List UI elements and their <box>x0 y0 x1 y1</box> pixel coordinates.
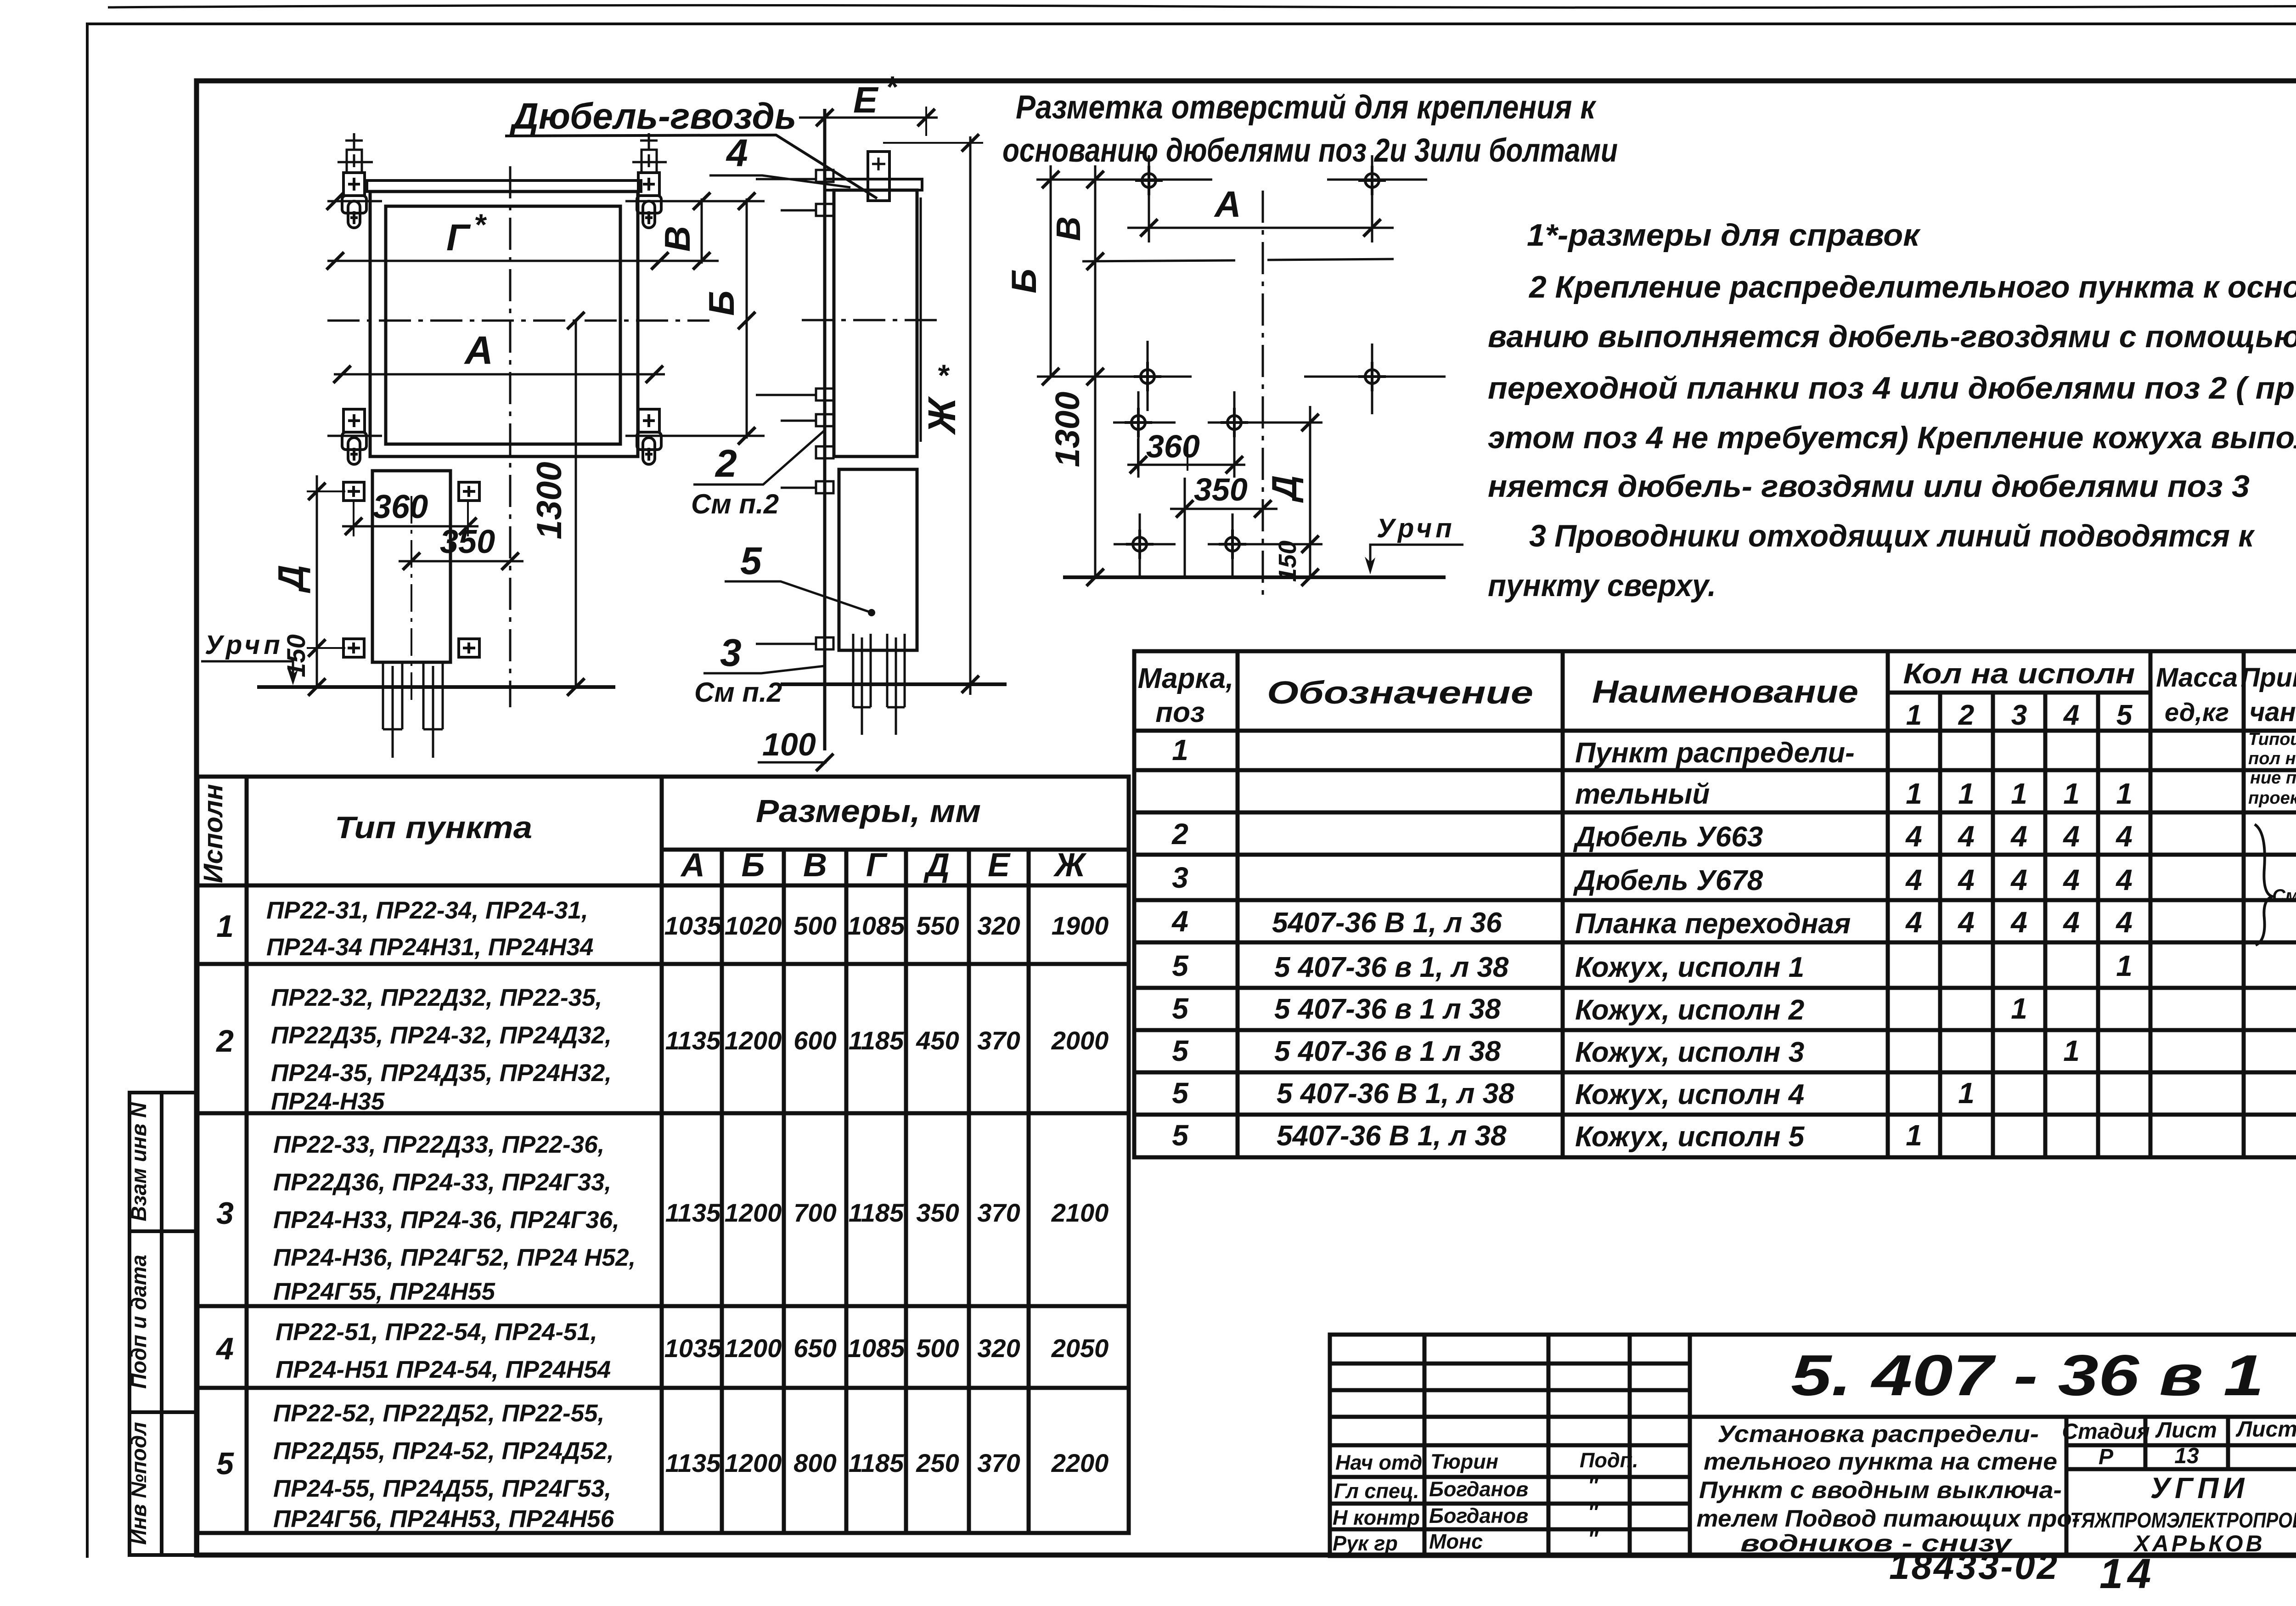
svg-text:Планка переходная: Планка переходная <box>1575 908 1851 940</box>
svg-text:ПР24Г56, ПР24Н53, ПР24Н56: ПР24Г56, ПР24Н53, ПР24Н56 <box>273 1505 614 1533</box>
svg-text:2: 2 <box>1171 817 1188 851</box>
callout Дюбель-гвоздь <box>505 96 877 198</box>
dim 100 <box>758 727 833 771</box>
svg-text:360: 360 <box>373 489 428 525</box>
dim В vertical <box>657 198 702 264</box>
dim 360 (holes) <box>1127 428 1245 473</box>
parts table designations <box>1272 907 1514 1152</box>
svg-text:Кол на исполн: Кол на исполн <box>1903 658 2135 690</box>
svg-text:В: В <box>803 847 827 884</box>
svg-text:Дюбель-гвоздь: Дюбель-гвоздь <box>509 96 796 136</box>
svg-text:Е: Е <box>988 847 1011 884</box>
dim line В / 1300 (left) <box>1048 165 1104 586</box>
title text <box>1697 1421 2080 1557</box>
lug bottom-left <box>342 409 366 464</box>
svg-text:телем Подвод питающих про-: телем Подвод питающих про- <box>1697 1505 2080 1532</box>
svg-text:Лист: Лист <box>2155 1418 2217 1443</box>
svg-text:1: 1 <box>1958 777 1975 810</box>
svg-text:4: 4 <box>1905 820 1922 853</box>
svg-text:Нач отд.: Нач отд. <box>1335 1451 1428 1474</box>
svg-text:Н контр: Н контр <box>1333 1506 1420 1529</box>
svg-text:1200: 1200 <box>725 1198 782 1227</box>
stand box <box>372 471 450 662</box>
title block frame <box>1330 1335 2296 1556</box>
svg-text:Взам инв N: Взам инв N <box>127 1102 151 1222</box>
top plate side <box>825 179 922 190</box>
svg-text:1020: 1020 <box>725 911 782 940</box>
svg-text:320: 320 <box>977 911 1020 940</box>
svg-text:А: А <box>464 328 493 372</box>
svg-text:Кожух, исполн 5: Кожух, исполн 5 <box>1575 1121 1805 1153</box>
svg-text:150: 150 <box>281 634 310 677</box>
svg-text:Марка,: Марка, <box>1138 663 1234 694</box>
svg-text:ПР22-33, ПР22Д33, ПР22-36,: ПР22-33, ПР22Д33, ПР22-36, <box>273 1131 604 1158</box>
svg-text:ПР24-35, ПР24Д35, ПР24Н32,: ПР24-35, ПР24Д35, ПР24Н32, <box>271 1059 612 1087</box>
front ground line <box>257 678 615 696</box>
svg-text:800: 800 <box>793 1448 836 1477</box>
svg-text:ПР24-Н36, ПР24Г52, ПР24 Н52,: ПР24-Н36, ПР24Г52, ПР24 Н52, <box>273 1244 636 1271</box>
svg-text:320: 320 <box>977 1334 1020 1363</box>
svg-text:1200: 1200 <box>725 1448 782 1477</box>
front anchor bolts <box>383 662 443 758</box>
dim Е line <box>799 107 938 136</box>
top holes <box>1135 155 1163 242</box>
svg-text:ПР24-Н51 ПР24-54, ПР24Н54: ПР24-Н51 ПР24-54, ПР24Н54 <box>276 1356 611 1383</box>
stadia list listov <box>2062 1417 2296 1469</box>
svg-text:2100: 2100 <box>1051 1198 1109 1227</box>
svg-text:″: ″ <box>1588 1474 1599 1497</box>
svg-text:Стадия: Стадия <box>2062 1420 2150 1444</box>
svg-text:Монс: Монс <box>1429 1530 1483 1553</box>
svg-text:1*-размеры для справок: 1*-размеры для справок <box>1527 218 1921 253</box>
svg-text:Д: Д <box>923 847 950 884</box>
svg-text:1900: 1900 <box>1052 911 1109 940</box>
parts table remark column <box>2248 730 2296 808</box>
parts table quantities <box>1905 777 2133 1152</box>
svg-text:Урчп: Урчп <box>1377 513 1456 543</box>
lug bottom-right <box>637 409 661 464</box>
svg-text:Установка распредели-: Установка распредели- <box>1717 1421 2039 1448</box>
svg-text:В: В <box>1049 216 1087 241</box>
svg-text:1: 1 <box>2011 777 2027 810</box>
svg-text:2000: 2000 <box>1051 1026 1109 1055</box>
svg-text:ПР24-Н33, ПР24-36, ПР24Г36,: ПР24-Н33, ПР24-36, ПР24Г36, <box>273 1206 619 1234</box>
svg-text:1185: 1185 <box>849 1448 904 1477</box>
svg-text:5: 5 <box>2116 699 2133 731</box>
svg-text:А: А <box>1214 184 1241 225</box>
svg-text:4: 4 <box>1957 906 1975 939</box>
svg-text:переходной планки поз 4 или: переходной планки поз 4 или дюбелями поз… <box>1488 371 2296 406</box>
left stamp column <box>129 1093 197 1555</box>
svg-text:См п.2: См п.2 <box>691 489 779 519</box>
svg-text:Обозначение: Обозначение <box>1267 675 1533 710</box>
svg-text:3 Проводники отходящих линий: 3 Проводники отходящих линий подводятся … <box>1529 518 2255 553</box>
svg-text:4: 4 <box>2115 820 2133 853</box>
svg-text:Тюрин: Тюрин <box>1430 1450 1498 1473</box>
svg-text:ПР24-Н35: ПР24-Н35 <box>271 1088 385 1115</box>
svg-text:1: 1 <box>1906 699 1922 731</box>
svg-text:4: 4 <box>2010 863 2027 896</box>
callout 2 <box>691 429 826 519</box>
parts table pos numbers <box>1171 733 1189 1152</box>
svg-text:1: 1 <box>1172 733 1188 766</box>
svg-text:чание: чание <box>2250 697 2296 727</box>
svg-text:1: 1 <box>2011 992 2027 1025</box>
svg-text:*: * <box>937 358 950 392</box>
svg-text:360: 360 <box>1146 428 1200 464</box>
svg-text:Р: Р <box>2099 1445 2114 1469</box>
stand axis line (holes) <box>1184 478 1186 577</box>
svg-text:Е: Е <box>853 79 879 120</box>
svg-text:ПР22Д36, ПР24-33, ПР24Г33,: ПР22Д36, ПР24-33, ПР24Г33, <box>273 1169 611 1196</box>
side anchor bolts <box>853 634 905 735</box>
label Урчп (holes) <box>1365 513 1463 575</box>
svg-text:Богданов: Богданов <box>1429 1504 1528 1527</box>
signature rows <box>1333 1448 1638 1555</box>
svg-text:Д: Д <box>1265 475 1304 503</box>
page top edge line <box>108 5 2296 7</box>
dim А line <box>1127 184 1394 237</box>
side ground line <box>781 682 1007 686</box>
lug center row line top <box>327 200 765 203</box>
svg-text:4: 4 <box>215 1331 234 1366</box>
svg-text:1: 1 <box>2116 777 2133 810</box>
svg-text:ние по: ние по <box>2250 768 2296 788</box>
svg-text:Г: Г <box>866 847 888 884</box>
front view top plate (планка) <box>367 180 641 192</box>
svg-text:Б: Б <box>742 847 765 884</box>
dimensions table frame <box>197 777 1129 1533</box>
Б top line <box>1082 260 1235 261</box>
svg-text:2: 2 <box>1958 699 1974 731</box>
svg-text:5 407-36 в 1 л 38: 5 407-36 в 1 л 38 <box>1274 1036 1501 1067</box>
dim Ж vertical <box>883 134 983 695</box>
parts table header texts <box>1138 658 2296 731</box>
svg-text:4: 4 <box>2010 820 2027 853</box>
horizontal centerline <box>327 312 709 329</box>
middle hole row <box>1037 376 1192 378</box>
dim line Б (left) <box>1005 165 1059 385</box>
svg-text:4: 4 <box>1957 820 1975 853</box>
svg-text:370: 370 <box>977 1448 1020 1477</box>
dims table type texts <box>266 897 636 1533</box>
svg-text:4: 4 <box>2062 906 2080 939</box>
svg-text:ПР22-52, ПР22Д52, ПР22-55,: ПР22-52, ПР22Д52, ПР22-55, <box>273 1400 604 1427</box>
svg-text:2 Крепление распределительног: 2 Крепление распределительного пункта к … <box>1528 270 2296 304</box>
svg-text:ПР22-51, ПР22-54, ПР24-51,: ПР22-51, ПР22-54, ПР24-51, <box>276 1319 597 1346</box>
svg-text:3: 3 <box>720 631 742 674</box>
svg-text:Богданов: Богданов <box>1429 1477 1528 1501</box>
svg-text:ед,кг: ед,кг <box>2165 698 2229 727</box>
dim Г* line <box>326 208 719 270</box>
svg-text:4: 4 <box>2062 863 2080 896</box>
svg-text:100: 100 <box>762 727 816 762</box>
svg-text:основанию дюбелями поз 2и 3или: основанию дюбелями поз 2и 3или болтами <box>1002 132 1618 169</box>
svg-text:тельного пункта на стене: тельного пункта на стене <box>1704 1448 2057 1475</box>
lower box side (кожух) <box>839 469 917 650</box>
svg-text:Исполн: Исполн <box>198 784 228 883</box>
svg-text:ТЯЖПРОМЭЛЕКТРОПРОЕКТ: ТЯЖПРОМЭЛЕКТРОПРОЕКТ <box>2070 1508 2296 1532</box>
svg-text:3: 3 <box>2011 699 2027 731</box>
svg-text:550: 550 <box>916 911 959 940</box>
svg-text:Масса: Масса <box>2156 663 2238 693</box>
svg-text:1200: 1200 <box>725 1026 782 1055</box>
svg-text:1185: 1185 <box>849 1198 904 1227</box>
svg-text:2200: 2200 <box>1051 1448 1109 1477</box>
dowel top <box>868 152 889 201</box>
inner top holes <box>1113 391 1176 478</box>
svg-text:Разметка отверстий для креплен: Разметка отверстий для крепления к <box>1016 89 1597 126</box>
svg-text:″: ″ <box>1588 1527 1599 1550</box>
svg-text:Б: Б <box>1005 269 1044 293</box>
svg-text:1135: 1135 <box>665 1448 721 1477</box>
dim Д vertical (holes) <box>1265 406 1319 582</box>
svg-text:ПР24-55, ПР24Д55, ПР24Г53,: ПР24-55, ПР24Д55, ПР24Г53, <box>273 1475 611 1502</box>
svg-text:1135: 1135 <box>665 1026 721 1055</box>
svg-text:5: 5 <box>1172 949 1189 982</box>
svg-text:Кожух, исполн 2: Кожух, исполн 2 <box>1575 994 1804 1026</box>
svg-text:Листов: Листов <box>2235 1417 2296 1442</box>
svg-text:1035: 1035 <box>664 911 722 940</box>
svg-text:5: 5 <box>1172 992 1189 1025</box>
svg-text:3: 3 <box>216 1196 234 1231</box>
svg-text:5: 5 <box>216 1446 234 1481</box>
svg-text:ПР22Д35, ПР24-32, ПР24Д32,: ПР22Д35, ПР24-32, ПР24Д32, <box>271 1022 612 1049</box>
top hole row line <box>1036 179 1212 181</box>
dims table values <box>664 911 1109 1477</box>
svg-text:УГПИ: УГПИ <box>2150 1471 2249 1505</box>
svg-text:18433-02: 18433-02 <box>1889 1546 2059 1587</box>
stand tabs <box>343 482 364 501</box>
svg-text:″: ″ <box>1588 1500 1599 1524</box>
svg-text:Инв №подл: Инв №подл <box>127 1422 151 1544</box>
svg-text:5407-36 В 1, л 38: 5407-36 В 1, л 38 <box>1277 1120 1507 1152</box>
svg-text:350: 350 <box>440 524 495 560</box>
svg-text:5: 5 <box>740 539 762 582</box>
svg-text:650: 650 <box>793 1334 836 1363</box>
dims table row numbers <box>215 909 234 1481</box>
svg-text:пункту сверху.: пункту сверху. <box>1488 568 1716 603</box>
svg-text:1: 1 <box>1906 777 1922 810</box>
svg-text:ПР24Г55, ПР24Н55: ПР24Г55, ПР24Н55 <box>273 1278 496 1305</box>
svg-text:поз: поз <box>1155 697 1204 728</box>
svg-text:А: А <box>680 847 705 884</box>
svg-text:1200: 1200 <box>725 1334 782 1363</box>
svg-text:450: 450 <box>916 1026 959 1055</box>
svg-text:*: * <box>885 70 899 104</box>
svg-text:4: 4 <box>1957 863 1975 896</box>
callout 5 <box>725 539 875 616</box>
svg-text:Ж: Ж <box>920 396 963 435</box>
dim 1300 vertical <box>530 321 576 687</box>
svg-text:5: 5 <box>1172 1034 1189 1067</box>
upper box side <box>834 190 917 456</box>
svg-text:В: В <box>657 226 698 252</box>
svg-text:4: 4 <box>1905 906 1922 939</box>
svg-text:Урчп: Урчп <box>205 630 284 660</box>
svg-text:1: 1 <box>2063 1034 2080 1067</box>
svg-text:1035: 1035 <box>664 1334 722 1363</box>
svg-text:4: 4 <box>1171 905 1188 938</box>
svg-text:500: 500 <box>916 1334 959 1363</box>
svg-text:1300: 1300 <box>1048 392 1086 468</box>
wall line <box>823 109 827 750</box>
lug top-left <box>342 133 366 228</box>
svg-text:5 407-36 В 1, л 38: 5 407-36 В 1, л 38 <box>1277 1078 1514 1110</box>
label Е* <box>853 70 899 120</box>
svg-text:2: 2 <box>715 442 737 485</box>
svg-text:5: 5 <box>1172 1119 1189 1152</box>
svg-text:350: 350 <box>1194 472 1248 507</box>
svg-text:2: 2 <box>215 1024 234 1059</box>
svg-text:Подп и дата: Подп и дата <box>127 1255 151 1389</box>
svg-text:Гл спец.: Гл спец. <box>1334 1479 1419 1503</box>
svg-text:ПР22Д55, ПР24-52, ПР24Д52,: ПР22Д55, ПР24-52, ПР24Д52, <box>273 1437 614 1465</box>
svg-text:1: 1 <box>1958 1076 1975 1110</box>
vertical centerline <box>509 166 512 707</box>
svg-text:1085: 1085 <box>848 1334 905 1363</box>
org name <box>2070 1471 2296 1556</box>
svg-text:*: * <box>474 208 487 242</box>
svg-text:Г: Г <box>446 217 471 259</box>
svg-text:1: 1 <box>2063 777 2080 810</box>
svg-text:5 407-36 в 1 л 38: 5 407-36 в 1 л 38 <box>1274 993 1501 1025</box>
svg-text:4: 4 <box>2115 906 2133 939</box>
dim А line <box>333 328 665 383</box>
svg-text:5407-36 В 1, л 36: 5407-36 В 1, л 36 <box>1272 907 1502 939</box>
svg-text:5. 407 - 36 в 1: 5. 407 - 36 в 1 <box>1791 1343 2264 1408</box>
svg-text:600: 600 <box>793 1026 836 1055</box>
dim 350 (holes) <box>1170 472 1277 518</box>
label Урчп (front) <box>201 630 298 685</box>
svg-text:Рук гр: Рук гр <box>1333 1532 1398 1555</box>
svg-text:Размеры, мм: Размеры, мм <box>756 793 981 829</box>
svg-text:1: 1 <box>1906 1119 1922 1152</box>
svg-text:Наименование: Наименование <box>1592 674 1858 710</box>
svg-text:тельный: тельный <box>1575 778 1710 810</box>
svg-text:Ж: Ж <box>1053 847 1087 884</box>
side centerline <box>802 319 938 321</box>
svg-text:4: 4 <box>2010 906 2027 939</box>
inner bottom holes <box>1114 513 1176 578</box>
svg-text:370: 370 <box>977 1026 1020 1055</box>
wall fastener marks <box>756 170 833 649</box>
svg-text:Подп.: Подп. <box>1580 1448 1638 1472</box>
parts table frame <box>1134 651 2296 1157</box>
holes ground line <box>1063 569 1446 586</box>
upper box face line <box>920 197 922 442</box>
svg-text:Приме-: Приме- <box>2240 663 2296 693</box>
svg-text:Дюбель У678: Дюбель У678 <box>1573 865 1763 896</box>
svg-text:Пункт распредели-: Пункт распредели- <box>1575 737 1855 769</box>
svg-text:14: 14 <box>2099 1550 2155 1597</box>
svg-text:1300: 1300 <box>530 462 569 539</box>
svg-text:4: 4 <box>726 131 748 175</box>
svg-text:2050: 2050 <box>1051 1334 1109 1363</box>
svg-text:ванию выполняется дюбель-гво: ванию выполняется дюбель-гвоздями с помо… <box>1488 319 2296 354</box>
svg-text:проекту: проекту <box>2248 789 2296 808</box>
svg-text:4: 4 <box>1905 863 1922 896</box>
svg-text:1085: 1085 <box>848 911 905 940</box>
front view panel inner <box>386 206 620 444</box>
parts table names <box>1573 737 1855 1153</box>
svg-text:Д: Д <box>270 565 311 593</box>
svg-text:Кожух, исполн 4: Кожух, исполн 4 <box>1575 1079 1804 1110</box>
lug center row line bottom <box>327 435 765 437</box>
svg-text:этом поз 4 не требуется) К: этом поз 4 не требуется) Крепление кожух… <box>1488 420 2296 455</box>
dim Д vertical (front) <box>270 475 345 687</box>
dim Б vertical <box>701 198 755 439</box>
svg-text:няется дюбель- гвоздями или: няется дюбель- гвоздями или дюбелями поз… <box>1488 469 2250 504</box>
svg-text:Кожух, исполн 1: Кожух, исполн 1 <box>1575 952 1804 983</box>
svg-text:Дюбель У663: Дюбель У663 <box>1573 821 1763 853</box>
svg-text:700: 700 <box>793 1198 836 1227</box>
lug top-right <box>637 133 661 228</box>
svg-text:1185: 1185 <box>849 1026 904 1055</box>
svg-text:13: 13 <box>2174 1444 2199 1468</box>
remark brace <box>2255 824 2272 945</box>
svg-text:ПР22-31, ПР22-34, ПР24-31,: ПР22-31, ПР22-34, ПР24-31, <box>266 897 588 924</box>
svg-text:1: 1 <box>216 909 234 944</box>
svg-text:3: 3 <box>1172 861 1188 894</box>
svg-text:4: 4 <box>2062 820 2080 853</box>
svg-text:5: 5 <box>1172 1076 1189 1110</box>
callout 4 <box>709 131 850 187</box>
svg-text:См п.2: См п.2 <box>2272 886 2296 906</box>
svg-text:Типоис-: Типоис- <box>2248 730 2296 749</box>
callout 3 <box>694 631 825 708</box>
svg-text:250: 250 <box>916 1448 959 1477</box>
svg-text:пол не-: пол не- <box>2248 749 2296 768</box>
center axis dash-dot <box>1262 191 1264 602</box>
dim 350 (front) <box>399 524 523 570</box>
small dim lines above lugs <box>338 161 667 163</box>
svg-text:350: 350 <box>916 1198 959 1227</box>
svg-text:Б: Б <box>701 290 742 316</box>
svg-text:1135: 1135 <box>665 1198 721 1227</box>
svg-text:4: 4 <box>2115 863 2133 896</box>
svg-text:Пункт с вводным выключа-: Пункт с вводным выключа- <box>1699 1477 2062 1504</box>
svg-text:Кожух, исполн 3: Кожух, исполн 3 <box>1575 1037 1804 1068</box>
svg-text:Тип пункта: Тип пункта <box>335 810 532 845</box>
svg-text:370: 370 <box>977 1198 1020 1227</box>
svg-text:ПР24-34 ПР24Н31, ПР24Н34: ПР24-34 ПР24Н31, ПР24Н34 <box>266 934 594 961</box>
front view panel outer <box>370 192 638 456</box>
dim 360 (front) <box>342 489 478 536</box>
svg-text:ПР22-32, ПР22Д32, ПР22-35,: ПР22-32, ПР22Д32, ПР22-35, <box>271 984 602 1011</box>
svg-text:500: 500 <box>793 911 836 940</box>
notes text <box>1488 218 2296 603</box>
stand centerline <box>411 496 412 700</box>
svg-text:5 407-36 в 1, л 38: 5 407-36 в 1, л 38 <box>1274 952 1509 983</box>
svg-text:1: 1 <box>2116 949 2133 982</box>
svg-text:См п.2: См п.2 <box>694 677 782 708</box>
svg-text:4: 4 <box>2063 699 2079 731</box>
dims table header texts <box>198 784 1087 884</box>
